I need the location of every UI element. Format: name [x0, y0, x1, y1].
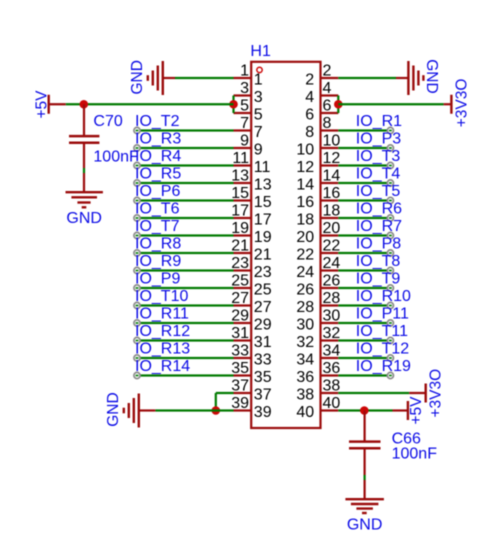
- svg-text:27: 27: [254, 299, 272, 316]
- svg-text:11: 11: [254, 159, 271, 176]
- svg-text:IO_T4: IO_T4: [356, 166, 401, 183]
- svg-text:16: 16: [323, 185, 341, 202]
- svg-text:IO_R3: IO_R3: [135, 131, 181, 148]
- svg-text:32: 32: [323, 325, 341, 342]
- H1 pin 27 stub: [234, 304, 252, 306]
- net label IO_T8: [356, 253, 401, 270]
- H1 pin 9 stub: [234, 147, 252, 149]
- pad terminal IO_T7: [134, 232, 140, 238]
- svg-text:14: 14: [323, 167, 341, 184]
- net label IO_T5: [356, 183, 401, 200]
- svg-text:18: 18: [323, 202, 341, 219]
- svg-text:33: 33: [231, 342, 249, 359]
- svg-text:28: 28: [296, 299, 314, 316]
- pin number 34 (outside): [323, 342, 341, 359]
- pad terminal IO_R4: [134, 162, 140, 168]
- pin number 22 (inside): [296, 247, 314, 264]
- pin number 15 (outside): [231, 185, 249, 202]
- pin number 29 (inside): [254, 317, 272, 334]
- pad terminal IO_T10: [134, 302, 140, 308]
- pin number 26 (outside): [323, 272, 341, 289]
- wire net IO_R4 (left): [137, 164, 234, 166]
- H1 pin 13 stub: [234, 182, 252, 184]
- net label IO_R3: [135, 131, 181, 148]
- svg-text:21: 21: [231, 237, 249, 254]
- pin number 19 (inside): [254, 229, 272, 246]
- svg-text:13: 13: [231, 167, 249, 184]
- svg-text:27: 27: [231, 290, 249, 307]
- H1 pin 40 stub: [321, 409, 339, 411]
- wire net IO_R6 (right): [338, 217, 390, 219]
- pin number 6 (outside): [323, 97, 332, 114]
- svg-text:IO_T11: IO_T11: [356, 323, 408, 340]
- svg-text:30: 30: [296, 317, 314, 334]
- pin number 36 (inside): [296, 369, 314, 386]
- pad terminal IO_R8: [134, 250, 140, 256]
- wire net IO_R1 (right): [338, 129, 390, 131]
- net label IO_T12: [356, 341, 409, 358]
- wire net IO_R10 (right): [338, 304, 390, 306]
- net label IO_T4: [356, 166, 401, 183]
- junction pin3/pin5/+5V: [229, 100, 238, 109]
- pin number 17 (inside): [254, 212, 272, 229]
- svg-text:23: 23: [254, 264, 272, 281]
- pin number 6 (inside): [305, 107, 314, 124]
- H1 pin 21 stub: [234, 252, 252, 254]
- pin number 12 (inside): [296, 159, 314, 176]
- pin number 2 (outside): [323, 62, 332, 79]
- pin number 28 (inside): [296, 299, 314, 316]
- svg-text:14: 14: [296, 177, 314, 194]
- ground symbol (top-left): [148, 61, 175, 95]
- H1 pin 3 stub: [234, 94, 252, 96]
- connector H1 body: [251, 62, 320, 428]
- net label IO_R13: [135, 341, 190, 358]
- ground symbol (bottom-left): [124, 394, 156, 428]
- svg-text:100nF: 100nF: [93, 149, 139, 166]
- svg-text:GND: GND: [129, 60, 146, 94]
- H1 pin 29 stub: [234, 322, 252, 324]
- svg-text:21: 21: [254, 247, 272, 264]
- pad terminal IO_T11: [387, 337, 393, 343]
- svg-text:2: 2: [323, 62, 332, 79]
- pin number 23 (inside): [254, 264, 272, 281]
- pin number 26 (inside): [296, 282, 314, 299]
- junction pin4/pin6/+3V3O: [334, 100, 343, 109]
- pin number 39 (outside): [231, 395, 249, 412]
- net label IO_T11: [356, 323, 408, 340]
- pin number 9 (inside): [254, 142, 263, 159]
- H1 pin 5 stub: [234, 112, 252, 114]
- wire net IO_R14 (left): [137, 374, 234, 376]
- svg-text:IO_R19: IO_R19: [356, 358, 411, 375]
- svg-text:IO_R13: IO_R13: [135, 341, 190, 358]
- svg-text:9: 9: [254, 142, 263, 159]
- wire net IO_R8 (left): [137, 252, 234, 254]
- pin number 7 (inside): [254, 124, 263, 141]
- pin number 34 (inside): [296, 352, 314, 369]
- H1 pin 8 stub: [321, 129, 339, 131]
- junction pin37/pin39: [212, 406, 221, 415]
- pin number 1 (inside): [254, 72, 263, 89]
- net label IO_R7: [356, 218, 402, 235]
- ground symbol (C70): [66, 192, 103, 207]
- svg-text:40: 40: [323, 395, 341, 412]
- H1 designator: [250, 43, 271, 60]
- H1 pin 38 stub: [321, 392, 339, 394]
- H1 pin 15 stub: [234, 199, 252, 201]
- svg-text:12: 12: [296, 159, 314, 176]
- svg-text:IO_R4: IO_R4: [135, 148, 181, 165]
- pad terminal IO_R9: [134, 267, 140, 273]
- H1 pin 6 stub: [321, 112, 339, 114]
- svg-text:31: 31: [231, 325, 249, 342]
- pin number 14 (inside): [296, 177, 314, 194]
- GND text (C70): [66, 210, 102, 227]
- wire net IO_T9 (right): [338, 287, 390, 289]
- svg-text:1: 1: [254, 72, 263, 89]
- wire net IO_T6 (left): [137, 217, 234, 219]
- pin number 2 (inside): [305, 72, 314, 89]
- wire net IO_T12 (right): [338, 357, 390, 359]
- ground symbol (C66): [345, 499, 384, 513]
- pin number 9 (outside): [240, 132, 249, 149]
- net label IO_R12: [135, 323, 190, 340]
- pad terminal IO_R12: [134, 337, 140, 343]
- H1 pin-1 indicator circle: [257, 67, 262, 72]
- pin number 20 (outside): [323, 220, 341, 237]
- svg-text:GND: GND: [423, 59, 440, 93]
- wire net IO_T3 (right): [338, 164, 390, 166]
- GND text (top-right): [423, 59, 440, 93]
- net label IO_T7: [135, 218, 180, 235]
- pin number 5 (inside): [254, 107, 263, 124]
- svg-text:IO_T12: IO_T12: [356, 341, 409, 358]
- pin number 17 (outside): [231, 202, 249, 219]
- svg-text:IO_T9: IO_T9: [356, 271, 401, 288]
- svg-text:IO_T2: IO_T2: [135, 113, 180, 130]
- svg-text:16: 16: [296, 194, 314, 211]
- svg-text:36: 36: [296, 369, 314, 386]
- net label IO_T9: [356, 271, 401, 288]
- pad terminal IO_T8: [387, 267, 393, 273]
- svg-text:13: 13: [254, 177, 272, 194]
- wire connecting pin3 and pin5: [232, 96, 234, 114]
- net label IO_R14: [135, 358, 190, 375]
- svg-text:+3V3O: +3V3O: [453, 79, 470, 128]
- wire net IO_P3 (right): [338, 147, 390, 149]
- svg-text:IO_R1: IO_R1: [356, 113, 402, 130]
- H1 pin 10 stub: [321, 147, 339, 149]
- pin number 29 (outside): [231, 307, 249, 324]
- pad terminal IO_R1: [387, 127, 393, 133]
- pad terminal IO_R6: [387, 215, 393, 221]
- svg-text:IO_R12: IO_R12: [135, 323, 190, 340]
- svg-text:C70: C70: [93, 113, 122, 130]
- pin number 33 (inside): [254, 352, 272, 369]
- svg-text:5: 5: [240, 97, 249, 114]
- H1 pin 14 stub: [321, 182, 339, 184]
- svg-text:26: 26: [323, 272, 341, 289]
- svg-text:28: 28: [323, 290, 341, 307]
- pin number 21 (outside): [231, 237, 249, 254]
- svg-text:IO_R11: IO_R11: [135, 306, 189, 323]
- svg-text:24: 24: [323, 255, 341, 272]
- pin number 24 (outside): [323, 255, 341, 272]
- svg-text:1: 1: [240, 62, 249, 79]
- H1 pin 30 stub: [321, 322, 339, 324]
- net label IO_R8: [135, 236, 181, 253]
- pad terminal IO_P3: [387, 145, 393, 151]
- wire net IO_P8 (right): [338, 252, 390, 254]
- svg-text:8: 8: [305, 124, 314, 141]
- wire net IO_R12 (left): [137, 339, 234, 341]
- net label IO_R10: [356, 288, 411, 305]
- H1 pin 33 stub: [234, 357, 252, 359]
- svg-text:IO_R6: IO_R6: [356, 201, 402, 218]
- svg-text:19: 19: [254, 229, 272, 246]
- svg-text:37: 37: [254, 387, 272, 404]
- svg-text:36: 36: [323, 360, 341, 377]
- H1 pin 28 stub: [321, 304, 339, 306]
- +5V text (bottom-right): [408, 396, 425, 425]
- svg-text:H1: H1: [250, 43, 271, 60]
- net label IO_T10: [135, 288, 188, 305]
- pin number 11 (outside): [232, 150, 249, 167]
- H1 pin 12 stub: [321, 164, 339, 166]
- svg-text:39: 39: [231, 395, 249, 412]
- pad terminal IO_T12: [387, 355, 393, 361]
- H1 pin 34 stub: [321, 357, 339, 359]
- pad terminal IO_R5: [134, 180, 140, 186]
- svg-text:23: 23: [231, 255, 249, 272]
- svg-text:IO_R14: IO_R14: [135, 358, 190, 375]
- pad terminal IO_R14: [134, 372, 140, 378]
- GND text (C66): [347, 517, 383, 534]
- svg-text:17: 17: [254, 212, 272, 229]
- pin number 36 (outside): [323, 360, 341, 377]
- pin number 25 (inside): [254, 282, 272, 299]
- pin number 33 (outside): [231, 342, 249, 359]
- svg-text:10: 10: [323, 132, 341, 149]
- pin number 30 (outside): [323, 307, 341, 324]
- svg-text:22: 22: [323, 237, 341, 254]
- wire pin2 to GND: [338, 77, 396, 79]
- pad terminal IO_T3: [387, 162, 393, 168]
- power symbol +3V3O (top-right): [444, 95, 452, 114]
- H1 pin 37 stub: [234, 392, 252, 394]
- net label IO_P3: [356, 131, 401, 148]
- wire net IO_R5 (left): [137, 182, 234, 184]
- pin number 1 (outside): [240, 62, 249, 79]
- H1 pin 18 stub: [321, 217, 339, 219]
- H1 pin 7 stub: [234, 129, 252, 131]
- pad terminal IO_R11: [134, 320, 140, 326]
- wire net IO_T10 (left): [137, 304, 234, 306]
- pin number 18 (inside): [296, 212, 314, 229]
- svg-text:3: 3: [254, 89, 263, 106]
- wire net IO_T11 (right): [338, 339, 390, 341]
- wire net IO_T7 (left): [137, 234, 234, 236]
- pin number 23 (outside): [231, 255, 249, 272]
- svg-text:IO_T5: IO_T5: [356, 183, 401, 200]
- pin number 8 (inside): [305, 124, 314, 141]
- wire net IO_R13 (left): [137, 357, 234, 359]
- power symbol +5V (bottom-right): [393, 401, 408, 420]
- svg-text:24: 24: [296, 264, 314, 281]
- H1 pin 23 stub: [234, 269, 252, 271]
- pin number 27 (outside): [231, 290, 249, 307]
- pin number 37 (outside): [231, 377, 249, 394]
- pin number 4 (inside): [305, 89, 314, 106]
- C70 designator: [93, 113, 122, 130]
- pin number 16 (inside): [296, 194, 314, 211]
- H1 pin 39 stub: [234, 409, 252, 411]
- wire pin39 to GND: [155, 409, 233, 411]
- net label IO_T6: [135, 201, 180, 218]
- pin number 5 (outside): [240, 97, 249, 114]
- pin number 21 (inside): [254, 247, 272, 264]
- pin number 27 (inside): [254, 299, 272, 316]
- pin number 11 (inside): [254, 159, 271, 176]
- svg-text:20: 20: [296, 229, 314, 246]
- wire net IO_R11 (left): [137, 322, 234, 324]
- pin number 12 (outside): [323, 150, 341, 167]
- C70 value 100nF: [93, 149, 139, 166]
- pin number 22 (outside): [323, 237, 341, 254]
- pin number 32 (outside): [323, 325, 341, 342]
- net label IO_P6: [135, 183, 180, 200]
- wire net IO_T5 (right): [338, 199, 390, 201]
- pin number 35 (inside): [254, 369, 272, 386]
- H1 pin 31 stub: [234, 339, 252, 341]
- pin number 31 (outside): [231, 325, 249, 342]
- net label IO_R1: [356, 113, 402, 130]
- pad terminal IO_T9: [387, 285, 393, 291]
- svg-text:25: 25: [231, 272, 249, 289]
- wire net IO_P6 (left): [137, 199, 234, 201]
- pin number 10 (outside): [323, 132, 341, 149]
- pin number 35 (outside): [231, 360, 249, 377]
- pin number 18 (outside): [323, 202, 341, 219]
- wire net IO_P9 (left): [137, 287, 234, 289]
- pad terminal IO_R13: [134, 355, 140, 361]
- pin number 38 (outside): [323, 377, 341, 394]
- svg-text:34: 34: [296, 352, 314, 369]
- H1 pin 11 stub: [234, 164, 252, 166]
- svg-text:6: 6: [323, 97, 332, 114]
- +3V3O text (top-right): [453, 79, 470, 128]
- pin number 15 (inside): [254, 194, 272, 211]
- C66 designator: [392, 430, 421, 447]
- H1 pin 4 stub: [321, 94, 339, 96]
- svg-text:15: 15: [231, 185, 249, 202]
- net label IO_P8: [356, 236, 401, 253]
- pin number 31 (inside): [254, 334, 272, 351]
- pad terminal IO_R10: [387, 302, 393, 308]
- H1 pin 25 stub: [234, 287, 252, 289]
- svg-text:IO_P8: IO_P8: [356, 236, 401, 253]
- pin number 13 (outside): [231, 167, 249, 184]
- svg-text:IO_R9: IO_R9: [135, 253, 181, 270]
- net label IO_T2: [135, 113, 180, 130]
- pin number 13 (inside): [254, 177, 272, 194]
- svg-text:35: 35: [254, 369, 272, 386]
- capacitor C70: [69, 104, 99, 191]
- power symbol +5V (top-left): [49, 95, 66, 114]
- pin number 32 (inside): [296, 334, 314, 351]
- svg-text:2: 2: [305, 72, 314, 89]
- svg-text:7: 7: [254, 124, 263, 141]
- wire +3V3O rail: [338, 103, 443, 105]
- net label IO_R11: [135, 306, 189, 323]
- svg-text:5: 5: [254, 107, 263, 124]
- wire +5V rail: [66, 103, 234, 105]
- svg-text:22: 22: [296, 247, 314, 264]
- pin number 16 (outside): [323, 185, 341, 202]
- pad terminal IO_P8: [387, 250, 393, 256]
- svg-text:7: 7: [240, 115, 249, 132]
- pin number 10 (inside): [296, 142, 314, 159]
- pin number 14 (outside): [323, 167, 341, 184]
- svg-text:19: 19: [231, 220, 249, 237]
- svg-text:GND: GND: [105, 392, 122, 426]
- pin number 24 (inside): [296, 264, 314, 281]
- svg-text:10: 10: [296, 142, 314, 159]
- pin number 20 (inside): [296, 229, 314, 246]
- svg-text:IO_T7: IO_T7: [135, 218, 180, 235]
- net label IO_R5: [135, 166, 181, 183]
- svg-text:34: 34: [323, 342, 341, 359]
- wire net IO_R7 (right): [338, 234, 390, 236]
- H1 pin 35 stub: [234, 374, 252, 376]
- svg-text:GND: GND: [347, 517, 383, 534]
- svg-text:3: 3: [240, 80, 249, 97]
- junction pin40/C66: [360, 406, 369, 415]
- net label IO_P11: [356, 306, 409, 323]
- GND text (bottom-left): [105, 392, 122, 426]
- wire net IO_P11 (right): [338, 322, 390, 324]
- pin number 3 (inside): [254, 89, 263, 106]
- pin number 3 (outside): [240, 80, 249, 97]
- svg-text:37: 37: [231, 377, 249, 394]
- svg-text:IO_T8: IO_T8: [356, 253, 401, 270]
- H1 pin 26 stub: [321, 287, 339, 289]
- svg-text:40: 40: [296, 404, 314, 421]
- pin number 37 (inside): [254, 387, 272, 404]
- H1 pin 36 stub: [321, 374, 339, 376]
- svg-text:15: 15: [254, 194, 272, 211]
- pad terminal IO_T6: [134, 215, 140, 221]
- pin number 8 (outside): [323, 115, 332, 132]
- pad terminal IO_R3: [134, 145, 140, 151]
- H1 pin 1 stub: [234, 77, 252, 79]
- svg-text:IO_T6: IO_T6: [135, 201, 180, 218]
- pad terminal IO_T2: [134, 127, 140, 133]
- net label IO_R4: [135, 148, 181, 165]
- pin number 4 (outside): [323, 80, 332, 97]
- svg-text:11: 11: [232, 150, 249, 167]
- svg-text:IO_P11: IO_P11: [356, 306, 409, 323]
- wire net IO_T2 (left): [137, 129, 234, 131]
- wire pin1 to GND: [175, 77, 234, 79]
- svg-text:38: 38: [296, 387, 314, 404]
- svg-text:26: 26: [296, 282, 314, 299]
- pin number 30 (inside): [296, 317, 314, 334]
- svg-text:6: 6: [305, 107, 314, 124]
- pad terminal IO_R19: [387, 372, 393, 378]
- svg-text:33: 33: [254, 352, 272, 369]
